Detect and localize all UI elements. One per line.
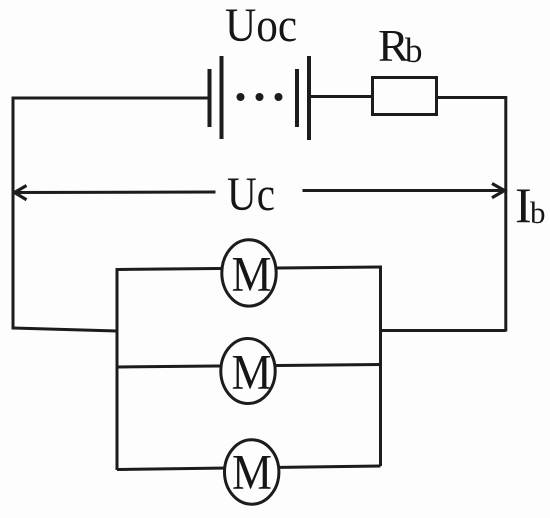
- svg-text:Uoc: Uoc: [225, 0, 297, 52]
- wire: left connector to motor bus: [13, 328, 117, 331]
- wire: right connector to motor bus: [381, 329, 506, 332]
- battery Uoc: [210, 56, 310, 140]
- motor M1: [222, 240, 276, 306]
- svg-text:M: M: [232, 246, 272, 302]
- wire: battery to resistor: [309, 95, 372, 98]
- wire: right bus of motor bank: [379, 266, 382, 467]
- label Rb: [378, 20, 423, 71]
- wire: branch 3: [117, 466, 381, 470]
- wire: branch 2: [117, 365, 381, 368]
- wire: resistor to top-right corner, down right side: [437, 98, 506, 332]
- resistor Rb: [373, 78, 437, 115]
- svg-text:b: b: [405, 31, 423, 70]
- motor M3: [225, 440, 279, 504]
- label Ib: [515, 177, 546, 233]
- wire: branch 1: [117, 267, 381, 270]
- svg-text:b: b: [530, 195, 546, 230]
- svg-text:M: M: [232, 444, 272, 500]
- svg-text:M: M: [232, 344, 272, 400]
- svg-text:Uc: Uc: [227, 168, 275, 221]
- wire: top-left horizontal (corner to battery): [13, 98, 210, 330]
- wire: left bus of motor bank: [116, 268, 119, 470]
- motor M2: [221, 339, 275, 404]
- voltage arrow Uc: [15, 184, 505, 200]
